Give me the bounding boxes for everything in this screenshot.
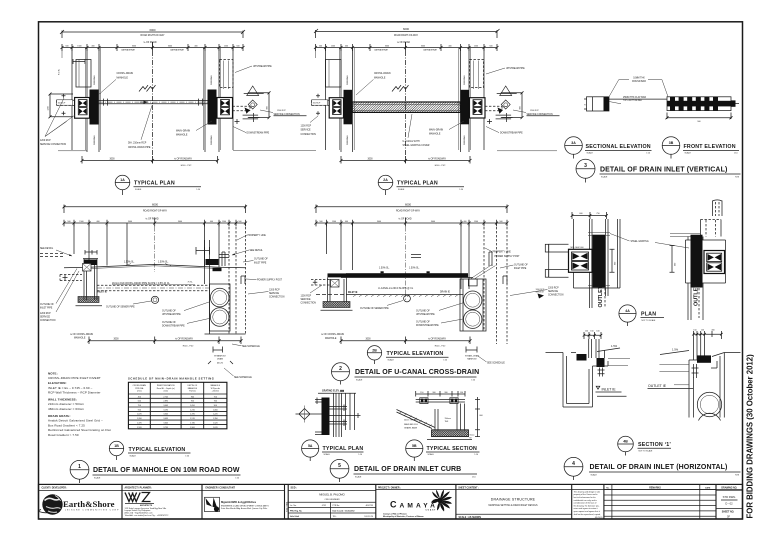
- svg-text:500: 500: [319, 46, 322, 48]
- svg-text:OUTLINE OF: OUTLINE OF: [514, 265, 528, 267]
- svg-text:MANHOLE: MANHOLE: [429, 133, 441, 136]
- bubble 5A: [302, 440, 319, 457]
- svg-text:MANHOLE: MANHOLE: [74, 336, 86, 339]
- svg-text:(Mob +63) : VngzNorbt@liv: (Mob +63) : VngzNorbt@live.com: [125, 512, 153, 515]
- svg-text:U–CANAL WITH: U–CANAL WITH: [403, 140, 420, 143]
- svg-text:6000: 6000: [405, 202, 411, 206]
- svg-text:TYPICAL ELEVATION: TYPICAL ELEVATION: [129, 447, 186, 453]
- svg-text:910: 910: [138, 409, 141, 411]
- detail 2A title bubble: [378, 175, 393, 190]
- svg-text:3,645: 3,645: [163, 422, 168, 424]
- svg-text:DETAIL OF DRAIN INLET (VERTICA: DETAIL OF DRAIN INLET (VERTICAL): [600, 166, 727, 173]
- svg-text:4692733: 4692733: [366, 505, 373, 507]
- bubble 4A: [619, 305, 636, 322]
- title block outline: [39, 484, 743, 519]
- svg-text:W MAIN–DRAIN: W MAIN–DRAIN: [465, 354, 480, 357]
- svg-text:OUTLINE OF: OUTLINE OF: [416, 310, 430, 312]
- svg-text:1:10: 1:10: [734, 153, 738, 155]
- svg-text:SAND BED FILL: SAND BED FILL: [404, 423, 418, 426]
- svg-text:+150mm: +150mm: [212, 391, 220, 393]
- detail 1B title bubble: [109, 441, 123, 455]
- svg-text:FOR BIDDING DRAWINGS (30 Octob: FOR BIDDING DRAWINGS (30 October 2012): [745, 354, 754, 519]
- svg-text:R.O.W.: R.O.W.: [59, 68, 61, 75]
- svg-text:H100 – P1/2: H100 – P1/2: [435, 346, 446, 348]
- svg-text:GRAVEL BASE: GRAVEL BASE: [404, 426, 418, 429]
- svg-text:NOTE:: NOTE:: [48, 371, 58, 375]
- road centerline: [405, 42, 407, 163]
- 4B left entry line: [546, 352, 564, 354]
- left cross-drain manhole (plan): [344, 90, 353, 125]
- svg-text:PROPERTY LINE: PROPERTY LINE: [248, 235, 267, 237]
- svg-text:1,220: 1,220: [213, 414, 218, 416]
- svg-text:CARRIAGEWAY: CARRIAGEWAY: [423, 49, 438, 52]
- svg-text:900: 900: [519, 106, 521, 109]
- svg-text:CLIENT / DEVELOPER :: CLIENT / DEVELOPER :: [42, 488, 68, 490]
- svg-text:1,060: 1,060: [213, 409, 218, 411]
- svg-text:PTR No.: PTR No.: [333, 505, 341, 507]
- 4A right drain bar: [691, 235, 703, 288]
- right main-drain manhole chamber: [470, 98, 486, 118]
- left manhole base: [78, 297, 99, 303]
- svg-text:400: 400: [711, 329, 714, 331]
- svg-text:10MM THK: 10MM THK: [633, 78, 645, 80]
- bottom dimension line: [340, 337, 472, 345]
- svg-text:Telax Add : vvz.studio@arch.n: Telax Add : vvz.studio@arch.net Tlg. : +…: [125, 514, 169, 517]
- left manhole (elevation): [328, 278, 347, 303]
- svg-text:PLAN: PLAN: [641, 311, 656, 317]
- svg-text:1:50: 1:50: [471, 379, 475, 381]
- svg-text:3000: 3000: [109, 158, 115, 160]
- svg-text:3: 3: [584, 163, 587, 169]
- svg-text:SCALE: SCALE: [591, 473, 598, 476]
- svg-text:1500: 1500: [222, 221, 226, 223]
- svg-text:500: 500: [489, 46, 492, 48]
- svg-text:ENGINEER / CONSULTANT: ENGINEER / CONSULTANT: [206, 487, 236, 490]
- svg-text:CONNECTION: CONNECTION: [301, 303, 317, 305]
- svg-text:4A: 4A: [625, 309, 630, 313]
- svg-text:Grout: Grout: [470, 433, 475, 436]
- svg-text:1,350: 1,350: [213, 418, 218, 420]
- svg-text:SCALE: SCALE: [94, 476, 101, 479]
- detail 2 title bubble: [332, 363, 350, 381]
- svg-text:COAST: COAST: [426, 508, 437, 511]
- svg-text:W MANHOLE: W MANHOLE: [214, 354, 226, 357]
- svg-text:INLET IE = EL – 0.745 – 0.60 –: INLET IE = EL – 0.745 – 0.60 –: [48, 386, 93, 390]
- svg-text:℅ OF CROSS–DRAIN: ℅ OF CROSS–DRAIN: [70, 333, 93, 336]
- svg-text:4B: 4B: [623, 440, 628, 444]
- 4A right dim bracket: [670, 246, 675, 273]
- svg-text:POWER SUPPLY POST: POWER SUPPLY POST: [257, 280, 283, 282]
- svg-text:SEE SCHEDULE: SEE SCHEDULE: [487, 362, 505, 364]
- detail 2A subdivision dimension line: [316, 42, 498, 51]
- svg-text:2,895: 2,895: [163, 401, 168, 403]
- svg-text:INLET IE: INLET IE: [348, 292, 358, 294]
- detail 1A overall dimension line 6000: [60, 30, 245, 38]
- svg-text:3000: 3000: [168, 46, 172, 48]
- 4A right upstream pipe dashed box: [701, 220, 722, 237]
- svg-text:this drawing, the borrower pro: this drawing, the borrower pro-: [574, 504, 600, 507]
- 4A left manhole chamber: [569, 249, 593, 272]
- svg-text:TYPICAL PLAN: TYPICAL PLAN: [323, 446, 364, 452]
- svg-text:150: 150: [590, 330, 593, 332]
- svg-text:MANHOLE: MANHOLE: [374, 76, 386, 79]
- 5B top dims: [416, 391, 465, 397]
- svg-text:SCHEDULE OF MAIN–DRAIN MANHOLE: SCHEDULE OF MAIN–DRAIN MANHOLE SETTING: [128, 377, 214, 381]
- svg-text:℅ OF ROADWAY: ℅ OF ROADWAY: [174, 157, 193, 160]
- svg-text:SIDEWALK: SIDEWALK: [346, 135, 349, 145]
- svg-text:SCALE: SCALE: [130, 454, 137, 457]
- svg-text:This drawing and design is sol: This drawing and design is sole: [574, 490, 600, 493]
- svg-text:(mm): (mm): [137, 391, 142, 393]
- svg-text:CONNECTION: CONNECTION: [548, 295, 564, 297]
- svg-text:CARRIAGEWAY: CARRIAGEWAY: [121, 49, 136, 52]
- 4A left sidewalk marks: [588, 233, 610, 286]
- svg-text:H100 – P1/2: H100 – P1/2: [183, 346, 194, 348]
- svg-text:1A: 1A: [120, 178, 125, 182]
- crown break symbols: [139, 85, 156, 91]
- svg-text:SGD / SEAL: SGD / SEAL: [285, 501, 288, 512]
- u-canal hatched band: [352, 102, 461, 112]
- sectional elevation inlet box: [587, 97, 610, 111]
- svg-text:500: 500: [238, 221, 241, 223]
- svg-text:GRATING ELEV. ▮▮▮: GRATING ELEV. ▮▮▮: [322, 390, 344, 393]
- u-canal channel bed: [346, 294, 464, 296]
- svg-text:750: 750: [596, 213, 599, 215]
- svg-text:INLET PIPE: INLET PIPE: [514, 268, 527, 270]
- left inlet box with cross: [83, 264, 92, 272]
- grate width dimension: [666, 113, 733, 120]
- svg-text:DETAIL OF DRAIN INLET (HORIZON: DETAIL OF DRAIN INLET (HORIZONTAL): [590, 464, 728, 471]
- svg-text:ROAD RIGHT-OF-WAY: ROAD RIGHT-OF-WAY: [143, 209, 167, 212]
- leader to round bar label: [609, 80, 668, 97]
- svg-text:SERVICE CONNECTION: SERVICE CONNECTION: [40, 144, 66, 146]
- svg-text:1:10: 1:10: [358, 454, 362, 456]
- manhole width bracket: [213, 347, 223, 353]
- 4B outlet pipe circle: [697, 392, 721, 416]
- svg-text:1500: 1500: [474, 221, 478, 223]
- svg-text:OUTLINE OF: OUTLINE OF: [162, 322, 176, 324]
- svg-text:1500: 1500: [79, 221, 83, 223]
- svg-text:150: 150: [701, 329, 704, 331]
- svg-text:DRAIN: DRAIN: [217, 357, 224, 360]
- notes block: [48, 371, 111, 437]
- svg-text:760: 760: [214, 401, 217, 403]
- svg-text:ROAD RIGHT-OF-WAY: ROAD RIGHT-OF-WAY: [394, 34, 418, 37]
- bubble 4B: [618, 436, 634, 452]
- svg-text:3,195: 3,195: [163, 409, 168, 411]
- svg-text:3000: 3000: [377, 221, 381, 223]
- svg-text:25MM THK FLAT BAR: 25MM THK FLAT BAR: [623, 96, 646, 99]
- svg-text:PROJECT / OWNER :: PROJECT / OWNER :: [378, 488, 401, 490]
- right service connection stub: [485, 106, 502, 111]
- svg-text:DETAIL OF MANHOLE ON 10M ROAD: DETAIL OF MANHOLE ON 10M ROAD ROW: [93, 467, 240, 474]
- 5A right branches: [330, 405, 361, 427]
- svg-text:460mm diameter = 63mm: 460mm diameter = 63mm: [48, 407, 85, 411]
- svg-text:400: 400: [96, 221, 99, 223]
- svg-text:1B: 1B: [114, 444, 119, 448]
- right service connection stub: [233, 106, 251, 111]
- header rule: [39, 489, 743, 492]
- svg-text:SCALE: SCALE: [428, 453, 435, 456]
- svg-text:900: 900: [697, 121, 700, 123]
- svg-text:℅ OF ROAD: ℅ OF ROAD: [145, 218, 158, 221]
- detail 2B overall dimension line: [315, 205, 509, 214]
- svg-text:UPSTREAM PIPE: UPSTREAM PIPE: [416, 313, 435, 316]
- svg-text:AMAYA: AMAYA: [400, 502, 438, 509]
- right dim bracket: [501, 91, 524, 119]
- svg-text:DOWNSTREAM PIPE: DOWNSTREAM PIPE: [247, 132, 270, 135]
- svg-text:WALL THICKNESS:: WALL THICKNESS:: [48, 397, 77, 401]
- svg-text:SEE DETAIL: SEE DETAIL: [40, 247, 54, 250]
- small posts at right: [489, 252, 507, 284]
- 5B top curb posts: [420, 398, 428, 404]
- M&A logo: [205, 497, 220, 511]
- right manhole elevation: [205, 240, 210, 334]
- svg-text:1200 RCP: 1200 RCP: [269, 289, 280, 291]
- svg-text:ROAD RIGHT-OF-WAY: ROAD RIGHT-OF-WAY: [141, 34, 165, 37]
- svg-text:1,370: 1,370: [190, 414, 195, 416]
- svg-text:OUTLET IE: OUTLET IE: [648, 384, 667, 388]
- svg-text:INLET IE: INLET IE: [98, 292, 108, 294]
- svg-text:OUTLINE OF SEWER PIPE: OUTLINE OF SEWER PIPE: [360, 308, 389, 310]
- svg-text:500: 500: [236, 46, 239, 48]
- svg-text:Earth&Shore: Earth&Shore: [63, 499, 115, 509]
- svg-text:ROUND BAR: ROUND BAR: [632, 80, 646, 83]
- svg-text:3,345: 3,345: [163, 414, 168, 416]
- svg-text:property of the Owner and is: property of the Owner and is: [574, 493, 598, 496]
- svg-text:SECTIONAL ELEVATION: SECTIONAL ELEVATION: [586, 144, 651, 150]
- svg-text:LEISURE COMMUNITIES CORP: LEISURE COMMUNITIES CORP: [65, 510, 119, 512]
- 4A left plan top dims: [571, 212, 608, 219]
- svg-text:℅ OF CROSS–DRAIN: ℅ OF CROSS–DRAIN: [321, 333, 344, 336]
- svg-text:DRAWING NO.: DRAWING NO.: [721, 486, 737, 489]
- svg-text:CIVIL ENGINEER: CIVIL ENGINEER: [324, 499, 340, 501]
- svg-text:REMARKS: REMARKS: [649, 486, 661, 489]
- svg-text:RCP Wall Thickness – RCP Diame: RCP Wall Thickness – RCP Diameter: [48, 391, 101, 395]
- 4B lower pipe arc: [699, 413, 721, 420]
- left service pipe (dashed): [60, 275, 82, 281]
- cross-drain pipe (plan): [99, 100, 208, 103]
- svg-text:(W+2T): (W+2T): [217, 363, 224, 365]
- bubble 3: [576, 159, 595, 178]
- left cross-drain manhole (plan): [90, 90, 99, 125]
- svg-text:1.50% SL.: 1.50% SL.: [158, 262, 169, 264]
- bottom dimension line: [81, 156, 220, 164]
- camaya starburst: [431, 490, 452, 512]
- svg-text:1500: 1500: [332, 221, 336, 223]
- left service connection stub: [57, 100, 75, 105]
- vertical reference lines: [74, 223, 219, 267]
- svg-text:900: 900: [214, 405, 217, 407]
- 4A right sidewalk marks: [670, 234, 700, 237]
- 4A left outer box: [574, 219, 621, 288]
- svg-text:900: 900: [191, 396, 194, 398]
- svg-text:610: 610: [138, 401, 141, 403]
- svg-text:3000: 3000: [421, 46, 425, 48]
- svg-text:400: 400: [91, 46, 94, 48]
- svg-text:500: 500: [65, 46, 68, 48]
- 5A left ticks: [315, 398, 322, 435]
- svg-text:SEE DETAIL: SEE DETAIL: [250, 249, 264, 252]
- svg-text:2B: 2B: [372, 349, 377, 353]
- left manhole grate at road: [84, 260, 97, 266]
- svg-text:DEPTH OF: DEPTH OF: [188, 385, 198, 387]
- svg-text:CROSS–DRAIN PIPE: CROSS–DRAIN PIPE: [128, 146, 151, 149]
- sidewalk line right: [497, 150, 557, 152]
- svg-text:Suite New Manila Bldg. Aurora: Suite New Manila Bldg. Aurora Blvd. Quez…: [221, 507, 268, 510]
- svg-text:TYPICAL SECTION: TYPICAL SECTION: [427, 446, 478, 452]
- svg-text:1:50: 1:50: [196, 189, 200, 191]
- detail 2B subdivision dimension line: [316, 218, 507, 227]
- svg-text:SERVICE: SERVICE: [548, 291, 559, 293]
- right manhole pipe circles: [210, 288, 229, 307]
- svg-text:MAIN–DRAIN: MAIN–DRAIN: [429, 128, 444, 131]
- column top dims: [73, 59, 85, 64]
- 4A right pipe stub above: [713, 201, 723, 217]
- svg-text:MIGUEL B. PALOMO: MIGUEL B. PALOMO: [319, 493, 345, 497]
- svg-text:3000: 3000: [178, 221, 182, 223]
- engineer name box: [288, 502, 376, 519]
- svg-text:500: 500: [67, 221, 70, 223]
- svg-text:Analok Detroit Galvanized Stee: Analok Detroit Galvanized Steel Grid –: [48, 419, 103, 423]
- svg-text:1,520: 1,520: [213, 422, 218, 424]
- svg-text:No.: No.: [606, 487, 610, 489]
- svg-text:5B: 5B: [412, 444, 417, 448]
- svg-text:400: 400: [345, 221, 348, 223]
- svg-text:1200 RCP: 1200 RCP: [301, 295, 312, 297]
- svg-text:MAIN–DRAIN: MAIN–DRAIN: [176, 129, 191, 132]
- svg-text:DOWNSTREAM PIPE: DOWNSTREAM PIPE: [416, 324, 439, 327]
- crown break symbols: [392, 85, 409, 91]
- svg-text:75 SL.: 75 SL.: [188, 281, 194, 283]
- svg-text:SCALE: SCALE: [356, 378, 363, 381]
- sewer pipe circle: [404, 295, 411, 302]
- svg-text:Reinforced Galvanized Steel Gr: Reinforced Galvanized Steel Grating on F…: [48, 428, 111, 432]
- grate end tab: [731, 100, 736, 106]
- svg-text:confidential use only, and: confidential use only, and in: [574, 499, 597, 502]
- svg-text:NOT TO SCALE: NOT TO SCALE: [639, 449, 654, 452]
- svg-text:SIDEWALK: SIDEWALK: [210, 135, 213, 145]
- svg-text:TYPICAL PLAN: TYPICAL PLAN: [134, 181, 175, 187]
- svg-text:INLET PIPE: INLET PIPE: [40, 308, 53, 310]
- left service connection stub: [312, 100, 330, 105]
- vertical reference lines: [327, 223, 470, 289]
- svg-text:600: 600: [675, 263, 677, 266]
- svg-text:100: 100: [596, 330, 599, 332]
- right manhole pipe circles: [464, 291, 482, 309]
- drawing number cell: [716, 490, 743, 508]
- svg-text:STEEL GRATING COVER: STEEL GRATING COVER: [403, 144, 430, 147]
- svg-text:900: 900: [266, 106, 268, 109]
- 4A left channel lines: [590, 219, 609, 308]
- svg-text:PROPERTY LINE: PROPERTY LINE: [493, 252, 512, 254]
- svg-text:1500: 1500: [224, 46, 228, 48]
- svg-text:3000: 3000: [385, 46, 389, 48]
- copyright note block: [574, 490, 603, 519]
- svg-text:2,745: 2,745: [163, 396, 168, 398]
- svg-text:750: 750: [214, 396, 217, 398]
- 4A right manhole chamber: [704, 251, 725, 274]
- svg-text:1200 RCP: 1200 RCP: [301, 126, 312, 128]
- svg-text:SIDEWALK: SIDEWALK: [463, 135, 466, 145]
- svg-text:UPSTREAM PIPE: UPSTREAM PIPE: [253, 65, 272, 68]
- svg-text:H100 – P1/2: H100 – P1/2: [435, 165, 446, 167]
- svg-text:SCALE: SCALE: [388, 359, 395, 362]
- svg-text:150: 150: [460, 392, 463, 394]
- svg-text:H (mm): H (mm): [189, 391, 196, 393]
- svg-text:CROSS–DRAIN PIPE INLET INVERT: CROSS–DRAIN PIPE INLET INVERT: [48, 376, 101, 380]
- svg-text:5A: 5A: [308, 444, 313, 448]
- 4B slope arrow: [597, 348, 620, 352]
- svg-text:Road Gradient > 7.50: Road Gradient > 7.50: [48, 433, 79, 437]
- svg-text:SHEET CONTENT :: SHEET CONTENT :: [458, 488, 479, 490]
- svg-text:150: 150: [420, 392, 423, 394]
- svg-text:SEE SCHEDULE: SEE SCHEDULE: [234, 377, 252, 379]
- svg-text:500: 500: [499, 221, 502, 223]
- right lot rectangle (dashed): [220, 60, 234, 88]
- svg-text:UPSTREAM PIPE: UPSTREAM PIPE: [506, 67, 525, 70]
- svg-text:3000: 3000: [431, 221, 435, 223]
- svg-text:Date Issued : 01-05-2012: Date Issued : 01-05-2012: [333, 510, 355, 513]
- svg-text:DOWNSTREAM PIPE: DOWNSTREAM PIPE: [500, 132, 523, 135]
- svg-text:upon request and agrees that i: upon request and agrees that it: [574, 510, 601, 513]
- 4B outlet curb block: [697, 355, 711, 362]
- svg-text:shall not be reproduced, copie: shall not be reproduced, copied,: [574, 513, 601, 516]
- svg-text:2A: 2A: [383, 178, 388, 182]
- 4A left dim bracket: [610, 249, 615, 272]
- svg-text:1.5%: 1.5%: [672, 348, 679, 352]
- bubble 5B: [406, 440, 423, 457]
- 4A left service bracket: [549, 244, 569, 277]
- svg-text:DATE: DATE: [705, 486, 711, 489]
- svg-text:1500: 1500: [474, 46, 478, 48]
- sewer pipe circle: [151, 296, 158, 303]
- svg-text:1,050: 1,050: [190, 405, 195, 407]
- 5A diamond symbol: [296, 409, 322, 420]
- svg-text:lent to the borrower for his: lent to the borrower for his: [574, 496, 596, 499]
- svg-text:ARCHITECTS: ARCHITECTS: [140, 504, 153, 507]
- svg-text:1: 1: [78, 464, 81, 470]
- 5B top rail: [416, 400, 465, 402]
- 4B left section top dims: [583, 332, 603, 339]
- svg-text:450: 450: [138, 396, 141, 398]
- svg-text:SEE SCHEDULE: SEE SCHEDULE: [242, 346, 260, 348]
- svg-text:5: 5: [338, 463, 341, 469]
- 4B left drop fitting: [598, 368, 605, 377]
- svg-text:910: 910: [191, 401, 194, 403]
- svg-text:1,670: 1,670: [213, 427, 218, 429]
- svg-text:6000: 6000: [403, 27, 409, 31]
- svg-text:SCALE: SCALE: [685, 152, 692, 155]
- road centerline: [152, 42, 154, 163]
- svg-text:PRC Reg. No.: PRC Reg. No.: [290, 511, 303, 513]
- 4B road lines left of outlet: [659, 364, 689, 371]
- svg-text:750: 750: [138, 405, 141, 407]
- svg-text:TOP & BOTTOM RAIL: TOP & BOTTOM RAIL: [623, 99, 642, 102]
- svg-text:6000: 6000: [152, 202, 158, 206]
- VVZ logo: [125, 493, 154, 507]
- svg-text:CARRIAGEWAY: CARRIAGEWAY: [170, 49, 185, 52]
- svg-text:1:10: 1:10: [474, 454, 478, 456]
- grate horizontal band: [667, 101, 731, 107]
- svg-text:CARRIAGEWAY: CARRIAGEWAY: [374, 49, 389, 52]
- svg-text:600: 600: [480, 415, 483, 417]
- svg-text:NOT TO SCALE: NOT TO SCALE: [642, 319, 657, 322]
- svg-text:1,200: 1,200: [137, 418, 142, 420]
- svg-text:OUTLINE OF: OUTLINE OF: [40, 304, 54, 306]
- left manhole dims above road: [85, 250, 97, 255]
- svg-text:2: 2: [339, 366, 342, 372]
